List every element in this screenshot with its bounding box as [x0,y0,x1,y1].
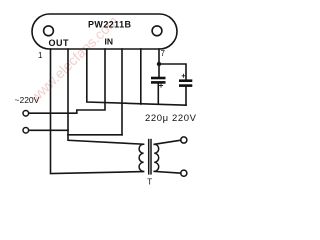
svg-text:220μ 220V: 220μ 220V [145,113,197,124]
svg-text:~220V: ~220V [15,95,40,105]
svg-text:T: T [147,178,152,187]
svg-text:IN: IN [105,37,114,47]
svg-text:PW2211B: PW2211B [88,20,132,30]
svg-text:7: 7 [161,49,166,58]
svg-text:1: 1 [38,51,43,60]
svg-text:OUT: OUT [49,38,70,48]
